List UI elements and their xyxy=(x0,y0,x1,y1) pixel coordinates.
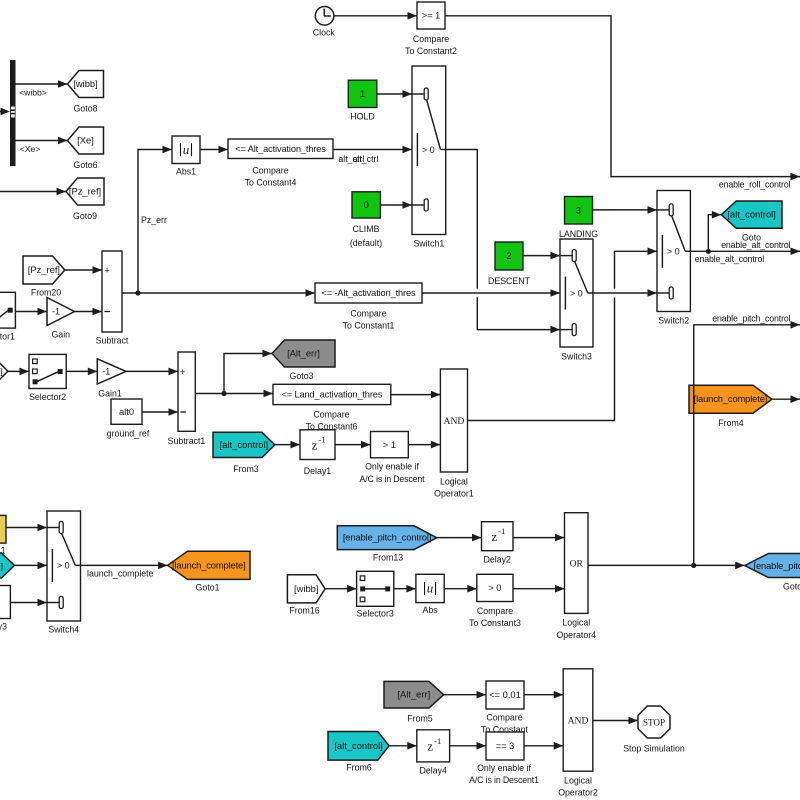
wire input into bus selector xyxy=(0,111,2,113)
svg-text:LANDING: LANDING xyxy=(559,229,598,239)
svg-text:CLIMB: CLIMB xyxy=(353,224,380,234)
goto tag Goto9 [Pz_ref] xyxy=(66,178,104,205)
wire Switch2 output enable_alt_control to right edge xyxy=(690,250,800,252)
svg-text:-1: -1 xyxy=(434,736,441,746)
svg-text:<Xe>: <Xe> xyxy=(20,144,41,154)
constant block LANDING (3) xyxy=(565,197,593,225)
wire DESCENT to Switch3 xyxy=(523,255,560,257)
svg-text:Only enable if: Only enable if xyxy=(477,763,531,773)
svg-text:alt_ctrl: alt_ctrl xyxy=(353,154,379,164)
svg-text:[enable_pitch_control]: [enable_pitch_control] xyxy=(754,560,800,571)
wire Switch1 output to Switch3 input 3 xyxy=(477,297,560,329)
svg-text:Operator2: Operator2 xyxy=(558,788,598,798)
svg-text:(default): (default) xyxy=(350,238,382,248)
svg-text:Logical: Logical xyxy=(564,776,592,786)
goto tag Goto3 [Alt_err] xyxy=(272,340,335,367)
from tag (clipped, cyan) feeding Switch4 xyxy=(0,553,15,578)
svg-text:Stop Simulation: Stop Simulation xyxy=(623,744,685,754)
sum block Subtract xyxy=(102,251,122,332)
block Compare To Constant3 (> 0) xyxy=(477,574,513,601)
svg-text:Pz_err: Pz_err xyxy=(141,215,167,225)
svg-text:Compare: Compare xyxy=(413,34,449,44)
from tag From5 [Alt_err] xyxy=(384,681,444,708)
wire Gain to Subtract - xyxy=(75,311,103,313)
svg-text:Delay1: Delay1 xyxy=(304,466,331,476)
abs block Abs xyxy=(416,574,444,602)
wire Gain1 to Subtract1 + xyxy=(126,370,178,372)
goto tag Goto1 [launch_complete] xyxy=(168,551,250,579)
constant block DESCENT (2) xyxy=(495,242,523,270)
svg-text:> 0: > 0 xyxy=(570,288,583,298)
from tag (clipped) feeding Selector2 xyxy=(0,359,8,385)
goto tag Goto8 [wibb] xyxy=(68,71,104,98)
svg-text:Switch4: Switch4 xyxy=(48,625,79,635)
block Compare To Constant1 (<= -Alt_activation_thres) xyxy=(315,283,422,303)
switch block Switch3 xyxy=(560,239,593,347)
wire ground_ref to Subtract1 - xyxy=(142,411,178,413)
svg-text:Abs1: Abs1 xyxy=(176,167,196,177)
switch block Switch2 xyxy=(657,191,690,312)
wire Delay3 to Switch4 xyxy=(10,602,47,604)
wire Subtract1 output to Compare To Constant6 xyxy=(195,393,273,395)
wire Delay4 to == 3 xyxy=(450,745,486,747)
svg-text:launch_complete: launch_complete xyxy=(87,569,154,579)
junction node enable_pitch xyxy=(691,563,696,568)
svg-text:-1: -1 xyxy=(102,367,110,377)
from tag From6 [alt_control] xyxy=(328,732,389,761)
from tag From16 [wibb] xyxy=(287,575,325,603)
wire junction up to Goto3 xyxy=(224,354,272,394)
svg-text:[launch_complete]: [launch_complete] xyxy=(694,393,768,404)
svg-text:From3: From3 xyxy=(233,464,259,474)
svg-text:[Xe]: [Xe] xyxy=(77,135,94,146)
svg-text:[alt_control]: [alt_control] xyxy=(727,209,775,220)
wire Logical Operator1 output up (lower segment) xyxy=(468,298,615,421)
svg-text:AND: AND xyxy=(444,416,465,427)
svg-text:[Pz_ref]: [Pz_ref] xyxy=(69,186,101,197)
wire From13 to Delay2 xyxy=(437,537,482,539)
svg-text:enable_roll_control: enable_roll_control xyxy=(719,180,791,190)
bus selector bar xyxy=(10,60,16,166)
svg-text:Compare: Compare xyxy=(486,712,522,722)
svg-text:Delay4: Delay4 xyxy=(420,766,447,776)
svg-text:From20: From20 xyxy=(31,288,61,298)
svg-text:Abs: Abs xyxy=(422,605,438,615)
wire Compare To Constant2 to enable_roll_control output xyxy=(445,16,800,177)
block (clipped, Delay3) feeding Switch4 xyxy=(0,586,10,619)
svg-text:From13: From13 xyxy=(373,553,403,563)
wire Pz_err up to Abs1 xyxy=(138,150,172,294)
svg-text:enable_alt_control: enable_alt_control xyxy=(695,254,764,264)
wire Selector1 to Gain xyxy=(15,311,47,313)
svg-text:[Alt_err]: [Alt_err] xyxy=(397,689,430,700)
wire HOLD to Switch1 xyxy=(377,93,412,95)
wire From20 to Subtract + xyxy=(65,269,102,271)
wire junction up to enable_pitch_control right edge xyxy=(694,325,800,566)
svg-text:2: 2 xyxy=(506,251,511,261)
wire junction up to Goto alt_control xyxy=(708,215,721,252)
from tag From3 [alt_control] xyxy=(213,432,275,457)
svg-text:OR: OR xyxy=(570,558,584,569)
sum block Subtract1 xyxy=(178,352,195,431)
svg-text:> 0: > 0 xyxy=(667,247,680,257)
svg-text:Operator4: Operator4 xyxy=(556,630,596,640)
from tag From20 [Pz_ref] xyxy=(23,256,65,284)
goto tag Goto [alt_control] xyxy=(721,201,782,228)
svg-text:Switch3: Switch3 xyxy=(561,352,592,362)
block Only enable if A/C is in Descent (> 1) xyxy=(371,432,409,458)
constant block ground_ref (alt0) xyxy=(111,399,142,424)
svg-text:> 0: > 0 xyxy=(57,561,70,571)
svg-text:<= 0.01: <= 0.01 xyxy=(489,690,521,700)
wire CLIMB to Switch1 xyxy=(380,204,412,206)
block Compare To Constant6 (<= Land_activation_thres) xyxy=(273,384,391,404)
svg-text:To Constant3: To Constant3 xyxy=(469,618,521,628)
wire Compare To Constant4 to Switch1 control xyxy=(333,149,412,151)
from tag From4 [launch_complete] xyxy=(689,385,772,413)
svg-text:+: + xyxy=(180,367,185,377)
svg-text:A/C is in Descent1: A/C is in Descent1 xyxy=(469,775,539,785)
svg-text:z: z xyxy=(427,738,433,753)
wire == 3 to Logical Operator2 xyxy=(524,745,563,747)
svg-text:DESCENT: DESCENT xyxy=(488,276,531,286)
svg-text:]: ] xyxy=(1,561,3,571)
svg-text:> 0: > 0 xyxy=(488,583,501,593)
wire yellow block to Switch4 xyxy=(6,527,47,529)
wire Compare To Constant3 to Logical Operator4 xyxy=(513,588,565,590)
goto tag Goto6 [Xe] xyxy=(68,127,104,154)
svg-text:[alt_control]: [alt_control] xyxy=(334,740,382,751)
svg-text:Goto8: Goto8 xyxy=(74,104,98,114)
clock block Clock xyxy=(315,7,334,26)
svg-text:> 1: > 1 xyxy=(383,440,396,450)
svg-text:alt0: alt0 xyxy=(119,407,134,417)
svg-text:Selector2: Selector2 xyxy=(29,392,66,402)
wire from tag to Selector2 xyxy=(8,370,29,372)
svg-text:Goto6: Goto6 xyxy=(74,160,98,170)
svg-text:Switch2: Switch2 xyxy=(658,316,689,326)
gain block Gain1 (-1) xyxy=(97,359,126,384)
svg-text:Compare: Compare xyxy=(350,309,386,319)
wire Abs1 to Compare To Constant4 xyxy=(200,149,228,151)
svg-text:AND: AND xyxy=(568,715,589,726)
svg-text:[alt_control]: [alt_control] xyxy=(220,439,268,450)
svg-text:Gain: Gain xyxy=(51,330,70,340)
svg-text:]: ] xyxy=(0,366,2,376)
svg-text:>= 1: >= 1 xyxy=(422,11,441,21)
svg-text:<= Alt_activation_thres: <= Alt_activation_thres xyxy=(235,144,326,154)
svg-text:z: z xyxy=(491,529,497,544)
wire Compare To Constant6 to Logical Operator1 xyxy=(391,394,441,396)
svg-text:Goto9: Goto9 xyxy=(73,211,97,221)
wire Selector3 to Abs xyxy=(394,588,416,590)
svg-text:<wibb>: <wibb> xyxy=(19,88,47,98)
svg-text:Selector3: Selector3 xyxy=(357,609,394,619)
svg-text:0: 0 xyxy=(364,200,369,210)
wire Compare To Constant to Logical Operator2 xyxy=(524,694,563,696)
wire Selector2 to Gain1 xyxy=(66,370,97,372)
wire > 1 to Logical Operator1 xyxy=(408,444,440,446)
svg-text:3: 3 xyxy=(576,205,581,215)
wire left edge to Goto9 xyxy=(0,191,66,193)
wire cyan tag to Switch4 xyxy=(15,564,48,566)
selector block Selector2 xyxy=(29,354,66,388)
from tag From13 [enable_pitch_control] xyxy=(337,526,437,550)
svg-text:Compare: Compare xyxy=(252,166,288,176)
logical operator block Logical Operator1 (AND) xyxy=(440,369,467,472)
wire LANDING to Switch2 xyxy=(593,209,658,211)
svg-text:A/C is in Descent: A/C is in Descent xyxy=(360,474,426,484)
constant block HOLD (1) xyxy=(348,80,377,107)
svg-text:-1: -1 xyxy=(52,307,60,317)
svg-text:From5: From5 xyxy=(407,714,433,724)
delay block Delay4 xyxy=(417,730,450,762)
wire From16 to Selector3 xyxy=(325,588,357,590)
switch block Switch4 xyxy=(47,511,81,621)
svg-text:Compare: Compare xyxy=(477,606,513,616)
svg-text:Delay2: Delay2 xyxy=(484,555,511,565)
wire bus to Goto8 xyxy=(16,83,68,85)
svg-text:[Alt_err]: [Alt_err] xyxy=(287,348,320,359)
wire Logical Operator4 output to Goto13 xyxy=(588,564,745,566)
svg-text:== 3: == 3 xyxy=(496,741,515,751)
wire Delay1 to compare > 1 xyxy=(335,444,371,446)
svg-text:ground_ref: ground_ref xyxy=(107,429,150,439)
svg-text:Goto1: Goto1 xyxy=(196,583,220,593)
svg-text:To Constant2: To Constant2 xyxy=(405,46,457,56)
junction node enable_alt_control xyxy=(706,249,711,254)
svg-text:[enable_pitch_control]: [enable_pitch_control] xyxy=(343,532,431,543)
svg-text:u: u xyxy=(427,581,434,596)
logical operator block Logical Operator4 (OR) xyxy=(565,513,589,614)
constant block CLIMB (0) xyxy=(352,192,380,218)
svg-text:> 0: > 0 xyxy=(422,145,435,155)
svg-text:Only enable if: Only enable if xyxy=(365,462,419,472)
wire Compare To Constant1 to Switch3 control xyxy=(422,292,560,294)
svg-text:[launch_complete]: [launch_complete] xyxy=(172,559,246,570)
svg-text:From6: From6 xyxy=(346,763,372,773)
svg-text:<= -Alt_activation_thres: <= -Alt_activation_thres xyxy=(321,288,416,298)
svg-text:1: 1 xyxy=(360,89,365,99)
wire Logical Operator2 to Stop Simulation xyxy=(593,720,638,722)
svg-text:enable_pitch_control: enable_pitch_control xyxy=(712,313,790,323)
svg-text:HOLD: HOLD xyxy=(350,112,374,122)
svg-text:To Constant1: To Constant1 xyxy=(343,321,395,331)
svg-text:Operator1: Operator1 xyxy=(434,489,474,499)
wire bus to Goto6 xyxy=(16,140,68,142)
svg-text:Goto3: Goto3 xyxy=(290,371,314,381)
svg-text:y3: y3 xyxy=(0,622,7,632)
junction node Alt_err xyxy=(221,391,226,396)
svg-text:enable_alt_control: enable_alt_control xyxy=(721,240,790,250)
svg-text:From4: From4 xyxy=(718,418,744,428)
gain block Gain (-1) xyxy=(47,298,75,326)
abs block Abs1 xyxy=(172,136,200,164)
svg-text:+: + xyxy=(104,266,109,276)
wire From4 to right edge xyxy=(772,398,800,400)
svg-text:From16: From16 xyxy=(289,606,319,616)
stop simulation block (octagon) xyxy=(638,706,670,738)
svg-text:To Constant4: To Constant4 xyxy=(245,178,297,188)
svg-text:Subtract1: Subtract1 xyxy=(168,436,206,446)
selector block Selector1 (clipped at left edge) xyxy=(0,292,15,328)
wire Switch4 output launch_complete to Goto1 xyxy=(81,564,168,566)
svg-text:<= Land_activation_thres: <= Land_activation_thres xyxy=(281,390,382,400)
svg-text:-1: -1 xyxy=(318,435,325,445)
block Compare To Constant4 (<= Alt_activation_thres) xyxy=(228,139,333,159)
wire From5 to Compare To Constant xyxy=(444,694,486,696)
svg-text:STOP: STOP xyxy=(643,718,665,728)
svg-text:Gain1: Gain1 xyxy=(98,389,122,399)
wire Logical Operator1 output to Switch2 control xyxy=(615,251,658,288)
junction node Pz_err xyxy=(135,290,140,295)
wire From6 to Delay4 xyxy=(389,745,417,747)
svg-text:Logical: Logical xyxy=(440,477,468,487)
svg-text:[wibb]: [wibb] xyxy=(294,583,319,594)
switch block Switch1 xyxy=(412,66,446,235)
svg-text:Subtract: Subtract xyxy=(96,336,129,346)
wire Abs to Compare To Constant3 xyxy=(444,588,477,590)
svg-text:Compare: Compare xyxy=(313,410,349,420)
svg-text:Selector1: Selector1 xyxy=(0,332,15,342)
svg-text:Goto13: Goto13 xyxy=(783,582,800,592)
svg-text:[wibb]: [wibb] xyxy=(73,78,98,89)
svg-text:Logical: Logical xyxy=(562,618,590,628)
svg-text:Clock: Clock xyxy=(313,28,336,38)
wire Delay2 to Logical Operator4 xyxy=(513,537,565,539)
goto tag Goto13 [enable_pitch_control] (clipped at right edge) xyxy=(745,554,800,578)
logical operator block Logical Operator2 (AND) xyxy=(563,669,593,771)
block (clipped, yellow) feeding Switch4 xyxy=(0,515,6,543)
wire Clock to Compare To Constant2 xyxy=(334,15,417,17)
block Only enable if A/C is in Descent1 (== 3) xyxy=(486,732,524,760)
delay block Delay1 xyxy=(300,430,335,460)
block Compare To Constant (<= 0.01) xyxy=(486,681,524,709)
svg-text:z: z xyxy=(312,437,318,452)
svg-text:[Pz_ref]: [Pz_ref] xyxy=(28,264,60,275)
svg-text:-1: -1 xyxy=(498,526,505,536)
wire Subtract output to Compare To Constant1 xyxy=(122,292,315,294)
wire From3 to Delay1 xyxy=(275,444,300,446)
delay block Delay2 xyxy=(482,522,514,551)
wire Switch3 output to Switch2 input 3 xyxy=(593,292,657,294)
svg-text:u: u xyxy=(183,142,190,157)
wire Switch1 output down (upper segment) xyxy=(446,150,478,289)
block Compare To Constant2 (>= 1) xyxy=(417,2,445,29)
selector block Selector3 xyxy=(357,571,394,606)
svg-text:Switch1: Switch1 xyxy=(413,239,444,249)
